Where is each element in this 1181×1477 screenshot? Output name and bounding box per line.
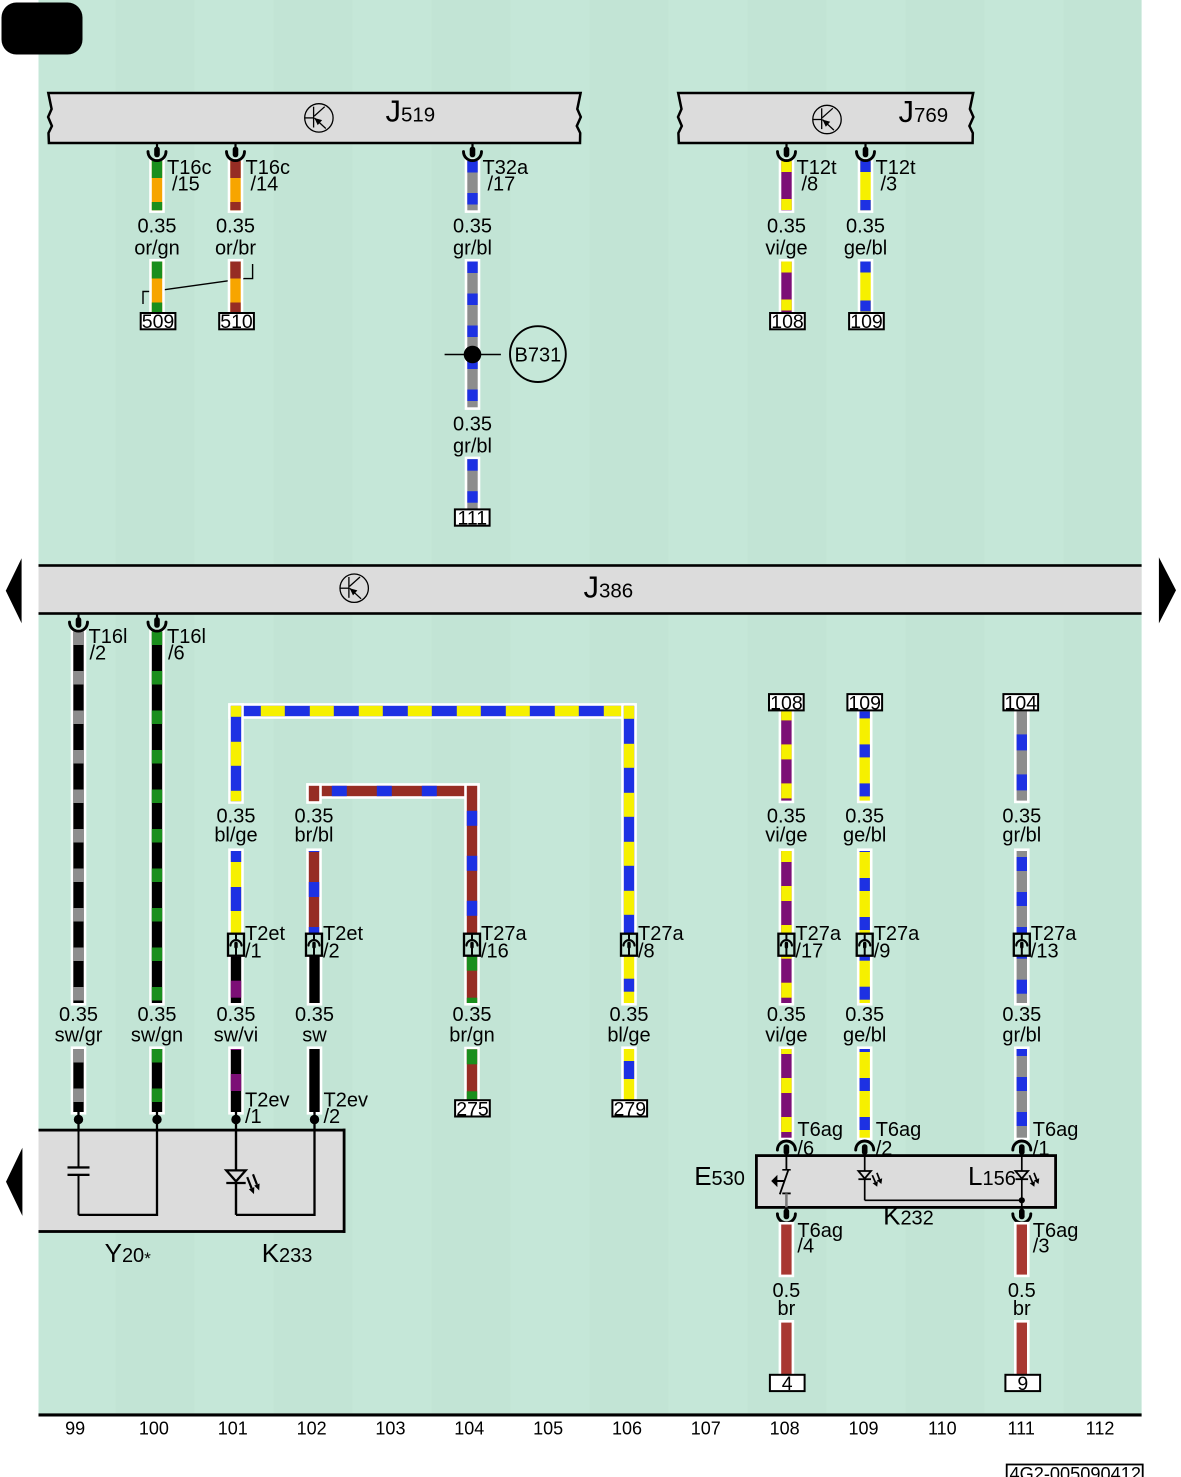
label L156	[968, 1161, 1016, 1191]
component box E530/K232/L156	[756, 1156, 1055, 1208]
svg-text:100: 100	[139, 1419, 169, 1439]
wire sw/gn from T16l/6	[149, 629, 165, 1115]
wire br to terminal 4	[779, 1222, 795, 1378]
label T27a/13	[1031, 923, 1077, 963]
label 0.35 gr/bl lower	[453, 413, 492, 457]
svg-text:108: 108	[770, 692, 803, 714]
terminal 104 (mid)	[1003, 692, 1038, 714]
terminal 108 (top)	[770, 311, 805, 333]
current track continuation arrow (right, J386)	[1159, 557, 1176, 623]
svg-text:vi/ge: vi/ge	[765, 825, 807, 847]
svg-text:275: 275	[456, 1098, 489, 1120]
label T6ag/6	[797, 1119, 843, 1160]
bus symbol on J519	[305, 104, 333, 132]
wire vi/ge from T12t/8	[779, 158, 795, 315]
terminal 510	[219, 311, 254, 333]
label 0.35 gr/bl upper	[453, 216, 492, 260]
label J386	[584, 570, 634, 605]
svg-text:sw/gr: sw/gr	[55, 1025, 103, 1047]
svg-text:108: 108	[771, 311, 804, 333]
current track numbers 99-112	[65, 1419, 1114, 1439]
label 0.35 ge/bl (mid lower)	[843, 1004, 886, 1047]
label 0.35 or/gn	[134, 216, 180, 260]
label T16c/14	[246, 157, 290, 196]
label T2ev/1	[245, 1090, 289, 1129]
svg-text:gr/bl: gr/bl	[1002, 825, 1041, 847]
label T16l/6	[167, 626, 206, 665]
capacitor element of Y20	[68, 1130, 90, 1215]
connector T6ag/2	[856, 1141, 874, 1156]
connector T16c/14	[227, 143, 245, 161]
connector T6ag/6	[777, 1141, 795, 1156]
label 0.35 bl/ge (jumper)	[214, 806, 257, 847]
connector T6ag/3	[1013, 1207, 1031, 1222]
junction dot at K233 pin 1	[231, 1110, 240, 1130]
svg-text:/1: /1	[1033, 1138, 1050, 1160]
svg-text:0.35: 0.35	[610, 1004, 649, 1026]
label T6ag/4	[797, 1220, 843, 1258]
control unit bus J386	[39, 564, 1142, 615]
connector T16l/6	[148, 614, 166, 632]
svg-text:110: 110	[928, 1419, 957, 1439]
svg-text:vi/ge: vi/ge	[765, 238, 807, 260]
label K233	[262, 1238, 313, 1268]
K232 internal wire to pin 3	[865, 1197, 1025, 1203]
in-line connector T27a/8	[621, 934, 637, 956]
label 0.35 vi/ge (top)	[765, 216, 807, 260]
svg-text:/2: /2	[90, 643, 107, 665]
svg-text:/8: /8	[802, 174, 819, 196]
connector T6ag/1	[1013, 1141, 1031, 1156]
terminal 275	[455, 1098, 490, 1120]
label 0.5 br (right)	[1008, 1280, 1036, 1320]
K233 internal return wire	[236, 1130, 315, 1215]
label T12t/8	[797, 157, 837, 196]
svg-text:0.35: 0.35	[138, 1004, 177, 1026]
diagram bottom frame line	[39, 1413, 1142, 1416]
label 0.35 gr/bl (mid upper)	[1002, 806, 1041, 847]
label T27a/16	[481, 923, 527, 963]
svg-text:0.35: 0.35	[295, 1004, 334, 1026]
svg-text:279: 279	[614, 1098, 647, 1120]
svg-text:gr/bl: gr/bl	[453, 238, 492, 260]
svg-text:111: 111	[1007, 1419, 1034, 1439]
LED element of L156	[1016, 1156, 1040, 1208]
svg-text:br/gn: br/gn	[449, 1025, 495, 1047]
connector T12t/8	[778, 143, 796, 161]
wire bl/ge to terminal 279	[621, 953, 637, 1103]
in-line connector T2et/2	[306, 934, 322, 956]
svg-text:106: 106	[612, 1419, 642, 1439]
svg-text:104: 104	[1005, 692, 1038, 714]
svg-text:9: 9	[1017, 1373, 1028, 1395]
terminal 9	[1005, 1373, 1040, 1395]
wire gr/bl to T27a/13	[1014, 709, 1030, 1141]
svg-text:/4: /4	[797, 1236, 814, 1258]
terminal 109 (top)	[849, 311, 884, 333]
wire ge/bl from T12t/3	[858, 158, 874, 315]
in-line connector T27a/16	[464, 934, 480, 956]
wire bl/ge jumper horizontal run	[228, 703, 637, 719]
in-line connector T2et/1	[228, 934, 244, 956]
svg-text:0.35: 0.35	[453, 216, 492, 238]
connector T16l/2	[70, 614, 88, 632]
svg-text:0.35: 0.35	[767, 216, 806, 238]
svg-text:ge/bl: ge/bl	[844, 238, 887, 260]
label 0.35 vi/ge (mid lower)	[765, 1004, 807, 1047]
wire gr/bl from T32a/17	[465, 158, 481, 512]
connector T32a/17	[464, 143, 482, 161]
label 0.35 sw/gr	[55, 1004, 103, 1047]
terminal 4	[770, 1373, 805, 1395]
connector T16c/15	[148, 143, 166, 161]
svg-text:109: 109	[850, 311, 883, 333]
label T16c/15	[167, 157, 211, 196]
black corner tab	[2, 3, 83, 55]
wire ge/bl to T27a/9	[857, 709, 873, 1141]
LED element of K232	[858, 1156, 882, 1201]
svg-text:109: 109	[848, 1419, 878, 1439]
svg-text:ge/bl: ge/bl	[843, 825, 886, 847]
svg-text:0.35: 0.35	[845, 1004, 884, 1026]
label T32a/17	[483, 157, 529, 196]
bus symbol on J769	[813, 105, 841, 133]
label Y20*	[105, 1238, 152, 1268]
svg-text:/8: /8	[638, 941, 655, 963]
svg-text:or/br: or/br	[215, 238, 256, 260]
label J519	[386, 94, 436, 129]
current track continuation arrow (left, J386)	[6, 558, 22, 623]
terminal 109 (mid)	[847, 692, 882, 714]
svg-text:4G2-005090412: 4G2-005090412	[1010, 1464, 1141, 1477]
svg-text:0.35: 0.35	[1002, 1004, 1041, 1026]
svg-text:0.35: 0.35	[217, 1004, 256, 1026]
svg-text:0.35: 0.35	[846, 216, 885, 238]
connector T6ag/4	[777, 1207, 795, 1222]
svg-text:sw: sw	[302, 1025, 327, 1047]
svg-text:0.35: 0.35	[216, 216, 255, 238]
label 0.35 sw/gn	[131, 1004, 183, 1047]
twisted-pair marker between wires 509 and 510	[143, 264, 253, 304]
junction dot at Y20 pin 2	[152, 1110, 161, 1130]
svg-text:br: br	[778, 1298, 796, 1320]
svg-text:/2: /2	[876, 1138, 893, 1160]
label 0.35 gr/bl (mid lower)	[1002, 1004, 1041, 1047]
wire sw to T2ev/2	[307, 953, 323, 1115]
svg-text:/6: /6	[797, 1138, 814, 1160]
svg-text:509: 509	[142, 311, 175, 333]
svg-text:gr/bl: gr/bl	[1002, 1025, 1041, 1047]
svg-text:or/gn: or/gn	[134, 238, 180, 260]
svg-text:/1: /1	[245, 1106, 262, 1128]
svg-text:0.35: 0.35	[138, 216, 177, 238]
svg-text:/13: /13	[1031, 941, 1059, 963]
control unit bus J519	[48, 93, 581, 143]
svg-text:/2: /2	[323, 941, 340, 963]
bus symbol on J386	[340, 574, 368, 602]
svg-text:101: 101	[218, 1419, 248, 1439]
svg-text:0.35: 0.35	[453, 413, 492, 435]
svg-text:vi/ge: vi/ge	[765, 1025, 807, 1047]
svg-text:103: 103	[375, 1419, 405, 1439]
wire sw/gr from T16l/2	[71, 629, 87, 1115]
svg-text:4: 4	[782, 1373, 793, 1395]
label 0.35 vi/ge (mid upper)	[765, 806, 807, 847]
label 0.35 ge/bl (top)	[844, 216, 887, 260]
in-line connector T27a/9	[857, 934, 873, 956]
svg-text:bl/ge: bl/ge	[607, 1025, 650, 1047]
label T16l/2	[89, 626, 128, 665]
terminal 111	[455, 508, 490, 530]
svg-text:/3: /3	[881, 174, 898, 196]
label 0.35 bl/ge (lower)	[607, 1004, 650, 1047]
junction dot at Y20 pin 1	[74, 1110, 83, 1130]
svg-text:/16: /16	[481, 941, 509, 963]
node B731 callout	[510, 326, 566, 382]
svg-text:/17: /17	[795, 941, 823, 963]
svg-text:/17: /17	[488, 174, 516, 196]
label T2ev/2	[324, 1090, 368, 1129]
wire br/bl jumper horizontal run	[306, 783, 480, 799]
label 0.35 or/br	[215, 216, 256, 260]
control unit bus J769	[678, 93, 973, 143]
node B731 junction	[445, 346, 501, 364]
label T27a/8	[638, 923, 684, 963]
label T27a/9	[874, 923, 920, 963]
terminal 108 (mid)	[769, 692, 804, 714]
wire or/br from T16c/14	[228, 158, 244, 315]
svg-text:109: 109	[848, 692, 881, 714]
label T6ag/3	[1033, 1220, 1079, 1258]
svg-text:99: 99	[65, 1419, 85, 1439]
Y20 internal return wire	[79, 1130, 158, 1215]
label T6ag/2	[876, 1119, 922, 1160]
svg-text:/2: /2	[324, 1106, 341, 1128]
label T6ag/1	[1033, 1119, 1079, 1160]
wire br/gn to terminal 275	[464, 953, 480, 1103]
svg-text:108: 108	[770, 1419, 800, 1439]
wire bl/ge jumper right leg	[621, 703, 637, 936]
svg-text:sw/vi: sw/vi	[214, 1025, 258, 1047]
svg-text:112: 112	[1086, 1419, 1115, 1439]
connector T12t/3	[857, 143, 875, 161]
svg-text:br: br	[1013, 1298, 1031, 1320]
label K232	[883, 1201, 934, 1231]
svg-text:102: 102	[297, 1419, 327, 1439]
svg-text:br/bl: br/bl	[295, 825, 334, 847]
svg-text:111: 111	[457, 508, 487, 530]
label J769	[899, 94, 949, 129]
wire vi/ge to T27a/17	[779, 709, 795, 1141]
LED element of K233	[226, 1130, 259, 1215]
label T2et/2	[323, 923, 363, 963]
label 0.35 br/gn	[449, 1004, 495, 1047]
wire br to terminal 9	[1014, 1222, 1030, 1378]
svg-text:bl/ge: bl/ge	[214, 825, 257, 847]
svg-text:ge/bl: ge/bl	[843, 1025, 886, 1047]
wire br/bl jumper left leg	[306, 783, 322, 936]
label 0.35 sw	[295, 1004, 334, 1047]
svg-text:0.35: 0.35	[453, 1004, 492, 1026]
svg-text:sw/gn: sw/gn	[131, 1025, 183, 1047]
label 0.35 sw/vi	[214, 1004, 258, 1047]
svg-text:104: 104	[454, 1419, 484, 1439]
svg-text:/15: /15	[172, 174, 200, 196]
terminal 509	[141, 311, 176, 333]
switch element of E530	[771, 1156, 791, 1208]
terminal 279	[612, 1098, 647, 1120]
svg-text:105: 105	[533, 1419, 563, 1439]
wire br/bl jumper right leg	[464, 783, 480, 936]
in-line connector T27a/13	[1014, 934, 1030, 956]
svg-text:/3: /3	[1033, 1236, 1050, 1258]
svg-text:0.35: 0.35	[767, 1004, 806, 1026]
label T12t/3	[876, 157, 916, 196]
label 0.5 br (left)	[772, 1280, 800, 1320]
svg-text:0.35: 0.35	[59, 1004, 98, 1026]
svg-text:/14: /14	[251, 174, 279, 196]
wire or/gn from T16c/15	[149, 158, 165, 315]
component box Y20/K233	[39, 1129, 346, 1233]
in-line connector T27a/17	[778, 934, 794, 956]
label T2et/1	[245, 923, 285, 963]
svg-text:gr/bl: gr/bl	[453, 435, 492, 457]
svg-text:510: 510	[220, 311, 253, 333]
junction dot at K233 pin 2	[310, 1110, 319, 1130]
wire sw/vi to T2ev/1	[228, 953, 244, 1115]
current track continuation arrow (left, E530)	[6, 1148, 22, 1216]
drawing number box	[1007, 1464, 1143, 1477]
svg-text:B731: B731	[515, 344, 562, 366]
svg-text:/6: /6	[168, 643, 185, 665]
svg-text:/1: /1	[245, 941, 262, 963]
svg-text:/9: /9	[874, 941, 891, 963]
label T27a/17	[795, 923, 841, 963]
svg-text:107: 107	[691, 1419, 721, 1439]
label 0.35 br/bl (jumper)	[295, 806, 334, 847]
label E530	[694, 1161, 745, 1191]
wire bl/ge jumper left leg	[228, 703, 244, 936]
label 0.35 ge/bl (mid upper)	[843, 806, 886, 847]
